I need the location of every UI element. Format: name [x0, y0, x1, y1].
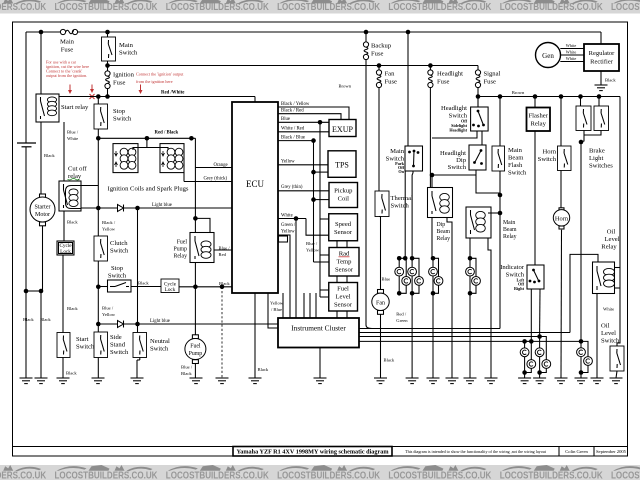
svg-text:Fuse: Fuse: [61, 47, 74, 54]
svg-text:Stop: Stop: [113, 108, 126, 115]
svg-text:Black: Black: [384, 358, 395, 363]
svg-text:LOCOSTBUILDERS.CO.UK: LOCOSTBUILDERS.CO.UK: [500, 2, 603, 13]
svg-text:output from the ignition.: output from the ignition.: [46, 73, 87, 78]
svg-text:Headlight: Headlight: [437, 71, 463, 78]
svg-text:Main: Main: [60, 39, 75, 46]
svg-text:Level: Level: [601, 330, 616, 337]
svg-text:Black: Black: [44, 153, 55, 158]
svg-text:Red /: Red /: [396, 312, 407, 317]
svg-text:Gen: Gen: [542, 52, 554, 60]
svg-text:Relay: Relay: [437, 236, 451, 242]
svg-text:Start relay: Start relay: [61, 104, 89, 111]
svg-text:Fuse: Fuse: [371, 51, 384, 58]
svg-text:TPS: TPS: [335, 161, 349, 170]
svg-text:Coil: Coil: [338, 196, 350, 203]
svg-text:Main: Main: [503, 220, 515, 226]
svg-text:Beam: Beam: [503, 227, 517, 233]
svg-text:Rectifier: Rectifier: [590, 59, 614, 66]
svg-text:Brake: Brake: [589, 148, 605, 155]
svg-text:Thermal: Thermal: [391, 195, 414, 202]
svg-text:Yellow: Yellow: [102, 312, 116, 317]
svg-text:LOCOSTBUILDERS.CO.UK: LOCOSTBUILDERS.CO.UK: [611, 2, 640, 13]
svg-text:Main: Main: [390, 148, 405, 155]
svg-text:Neutral: Neutral: [150, 338, 170, 345]
svg-text:Black / Blue: Black / Blue: [281, 135, 305, 140]
svg-text:Side: Side: [110, 334, 122, 341]
svg-text:Fuel: Fuel: [337, 286, 349, 293]
svg-text:White: White: [281, 214, 293, 219]
svg-text:White: White: [566, 43, 577, 48]
svg-text:Flasher: Flasher: [528, 113, 548, 120]
svg-text:Grey (thin): Grey (thin): [281, 185, 303, 190]
svg-text:Horn: Horn: [542, 149, 556, 156]
svg-text:Relay: Relay: [173, 254, 187, 260]
svg-text:Switch: Switch: [391, 203, 410, 210]
svg-text:Fuse: Fuse: [484, 79, 497, 86]
svg-text:Yellow: Yellow: [306, 248, 320, 253]
svg-text:Switch: Switch: [110, 248, 129, 255]
svg-text:Fuel: Fuel: [190, 344, 201, 350]
svg-text:Fan: Fan: [376, 301, 385, 307]
svg-text:Light blue: Light blue: [152, 203, 172, 208]
svg-text:Switch: Switch: [108, 273, 127, 280]
svg-text:Sensor: Sensor: [335, 267, 354, 274]
svg-text:Backup: Backup: [371, 43, 392, 50]
svg-text:Green: Green: [396, 318, 408, 323]
svg-text:LOCOSTBUILDERS.CO.UK: LOCOSTBUILDERS.CO.UK: [166, 2, 269, 13]
svg-text:Beam: Beam: [437, 229, 451, 235]
svg-text:LOCOSTBUILDERS.CO.UK: LOCOSTBUILDERS.CO.UK: [55, 470, 158, 480]
svg-text:Yamaha YZF R1 4XV 1998MY wirin: Yamaha YZF R1 4XV 1998MY wiring schemati…: [237, 449, 390, 456]
svg-text:Relay: Relay: [503, 234, 517, 240]
svg-text:Connect the 'ignition' output: Connect the 'ignition' output: [136, 72, 184, 77]
svg-text:Switch: Switch: [601, 338, 620, 345]
svg-text:Right: Right: [514, 286, 525, 291]
svg-text:Headlight: Headlight: [449, 128, 467, 133]
svg-text:Flash: Flash: [508, 162, 523, 169]
svg-text:Instrument Cluster: Instrument Cluster: [291, 324, 346, 333]
svg-text:Switch: Switch: [538, 156, 557, 163]
svg-text:Switch: Switch: [150, 346, 169, 353]
svg-text:Regulator: Regulator: [589, 50, 615, 57]
svg-text:Pump: Pump: [173, 247, 187, 253]
svg-text:LOCOSTBUILDERS.CO.UK: LOCOSTBUILDERS.CO.UK: [0, 2, 47, 13]
svg-text:Relay: Relay: [601, 244, 617, 251]
svg-text:Relay: Relay: [531, 121, 547, 128]
svg-text:Brown: Brown: [512, 90, 525, 95]
svg-text:LOCOSTBUILDERS.CO.UK: LOCOSTBUILDERS.CO.UK: [500, 470, 603, 480]
svg-text:Sensor: Sensor: [334, 302, 353, 309]
svg-text:Switch: Switch: [110, 349, 129, 356]
svg-text:Ignition Coils and Spark Plugs: Ignition Coils and Spark Plugs: [108, 186, 189, 193]
svg-text:Light: Light: [589, 155, 603, 162]
svg-text:Brown: Brown: [338, 84, 351, 89]
svg-text:White: White: [566, 56, 577, 61]
svg-text:Pump: Pump: [189, 351, 203, 357]
svg-text:Red / Black: Red / Black: [155, 131, 179, 136]
svg-text:EXUP: EXUP: [332, 125, 353, 134]
svg-text:Stop: Stop: [111, 265, 124, 272]
svg-text:Fuel: Fuel: [177, 240, 188, 246]
svg-text:Black: Black: [138, 281, 149, 286]
svg-text:White: White: [603, 307, 614, 312]
svg-text:LOCOSTBUILDERS.CO.UK: LOCOSTBUILDERS.CO.UK: [611, 470, 640, 480]
svg-text:Blue /: Blue /: [306, 241, 318, 246]
svg-text:Main: Main: [119, 42, 134, 49]
svg-text:Black: Black: [181, 371, 192, 376]
svg-text:from the ignition here: from the ignition here: [136, 79, 173, 84]
svg-text:Clutch: Clutch: [110, 240, 128, 247]
svg-text:Black: Black: [258, 367, 269, 372]
svg-text:Black: Black: [23, 317, 34, 322]
svg-text:/ Blue: / Blue: [271, 307, 282, 312]
svg-text:Fuse: Fuse: [385, 79, 398, 86]
svg-text:Fuse: Fuse: [113, 80, 126, 87]
svg-text:Pickup: Pickup: [334, 188, 353, 195]
svg-text:Main: Main: [508, 147, 523, 154]
svg-text:Ignition: Ignition: [113, 72, 135, 79]
svg-text:White: White: [566, 50, 577, 55]
svg-text:Speed: Speed: [335, 221, 352, 228]
svg-text:Black: Black: [40, 317, 51, 322]
svg-text:Yellow: Yellow: [270, 301, 284, 306]
svg-text:Dip: Dip: [456, 157, 467, 164]
svg-text:Black: Black: [67, 306, 78, 311]
svg-text:Black /: Black /: [102, 220, 116, 225]
svg-text:Fan: Fan: [385, 71, 396, 78]
svg-text:Switch: Switch: [508, 170, 527, 177]
svg-text:Beam: Beam: [508, 155, 524, 162]
svg-text:LOCOSTBUILDERS.CO.UK: LOCOSTBUILDERS.CO.UK: [0, 470, 47, 480]
svg-text:Cut off: Cut off: [68, 166, 88, 173]
svg-text:Green /: Green /: [281, 223, 296, 228]
svg-text:Headlight: Headlight: [441, 105, 467, 112]
svg-text:Switch: Switch: [119, 50, 138, 57]
svg-text:LOCOSTBUILDERS.CO.UK: LOCOSTBUILDERS.CO.UK: [277, 2, 380, 13]
svg-text:On: On: [398, 169, 404, 174]
svg-text:Switch: Switch: [448, 164, 467, 171]
svg-text:Motor: Motor: [35, 212, 50, 218]
svg-text:Yellow: Yellow: [102, 227, 116, 232]
svg-text:Grey (thick): Grey (thick): [204, 177, 228, 182]
svg-text:Headlight: Headlight: [440, 150, 466, 157]
svg-text:Blue: Blue: [281, 117, 290, 122]
svg-text:LOCOSTBUILDERS.CO.UK: LOCOSTBUILDERS.CO.UK: [277, 470, 380, 480]
svg-text:Stand: Stand: [110, 342, 126, 349]
svg-text:Switches: Switches: [589, 163, 613, 170]
svg-text:Black / Yellow: Black / Yellow: [281, 102, 310, 107]
svg-text:Level: Level: [604, 236, 619, 243]
svg-text:Indicator: Indicator: [500, 264, 525, 271]
svg-text:September 2005: September 2005: [596, 449, 627, 454]
svg-text:Blue: Blue: [382, 277, 391, 282]
svg-text:Sensor: Sensor: [334, 229, 353, 236]
svg-text:Level: Level: [335, 294, 350, 301]
svg-text:White: White: [67, 136, 78, 141]
svg-text:Signal: Signal: [484, 71, 501, 78]
svg-text:Light blue: Light blue: [150, 319, 170, 324]
svg-text:Fuse: Fuse: [437, 79, 450, 86]
svg-text:Switch: Switch: [76, 344, 95, 351]
svg-text:Lock: Lock: [60, 249, 71, 255]
svg-text:Blue /: Blue /: [102, 306, 114, 311]
svg-text:Blue /: Blue /: [181, 365, 193, 370]
svg-text:LOCOSTBUILDERS.CO.UK: LOCOSTBUILDERS.CO.UK: [166, 470, 269, 480]
svg-text:Switch: Switch: [113, 116, 132, 123]
svg-text:Oil: Oil: [607, 229, 616, 236]
svg-text:Horn: Horn: [555, 216, 569, 223]
svg-text:Black: Black: [66, 371, 77, 376]
svg-text:LOCOSTBUILDERS.CO.UK: LOCOSTBUILDERS.CO.UK: [388, 470, 491, 480]
svg-text:Starter: Starter: [35, 205, 51, 211]
svg-text:Dip: Dip: [437, 222, 446, 228]
svg-text:LOCOSTBUILDERS.CO.UK: LOCOSTBUILDERS.CO.UK: [55, 2, 158, 13]
svg-text:Blue /: Blue /: [67, 130, 79, 135]
svg-text:Temp: Temp: [337, 259, 353, 266]
svg-text:Lock: Lock: [165, 287, 176, 293]
svg-text:Colin Green: Colin Green: [565, 449, 588, 454]
svg-text:Yellow: Yellow: [281, 230, 295, 235]
svg-text:Yellow: Yellow: [281, 160, 295, 165]
svg-text:Black / Red: Black / Red: [281, 109, 304, 114]
svg-text:ECU: ECU: [246, 179, 265, 189]
svg-text:Start: Start: [76, 336, 89, 343]
svg-text:Oil: Oil: [601, 323, 610, 330]
svg-text:LOCOSTBUILDERS.CO.UK: LOCOSTBUILDERS.CO.UK: [388, 2, 491, 13]
svg-text:Red: Red: [219, 252, 227, 257]
svg-text:Black: Black: [605, 78, 616, 83]
svg-text:White / Red: White / Red: [281, 127, 305, 132]
svg-text:Red /White: Red /White: [161, 91, 184, 96]
svg-text:Black: Black: [67, 220, 78, 225]
